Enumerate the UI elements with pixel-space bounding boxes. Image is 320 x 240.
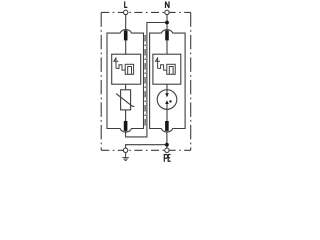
terminal clamp left top xyxy=(124,31,128,41)
wire earth branch xyxy=(126,145,167,148)
terminal clamp right bottom xyxy=(165,121,169,131)
junction node PE xyxy=(165,143,169,147)
wire varistor to bottom terminal xyxy=(125,110,127,121)
spark gap F1 (circle) xyxy=(157,90,177,110)
spark gap arrows xyxy=(165,93,169,97)
wire N drop xyxy=(166,15,168,31)
wire spark gap to bottom terminal xyxy=(166,109,168,121)
junction node N xyxy=(165,21,169,25)
module divider (dash-dot) xyxy=(144,35,146,127)
label PE (E) xyxy=(168,155,171,162)
module box left xyxy=(107,30,144,133)
disconnector box U2 (right) xyxy=(153,54,181,84)
label L xyxy=(125,1,128,7)
terminal clamp left bottom xyxy=(124,121,128,131)
terminal circle N xyxy=(165,10,169,14)
terminal clamp right top xyxy=(165,31,169,41)
terminal circle earth xyxy=(123,148,127,152)
earth symbol xyxy=(122,153,129,161)
label PE (P) xyxy=(164,155,167,162)
varistor RV1 xyxy=(121,90,131,110)
wire left disconnect to varistor xyxy=(125,84,127,90)
enclosure border bottom (dash-dot) xyxy=(101,149,191,151)
terminal circle PE xyxy=(165,148,169,152)
module box right xyxy=(150,30,186,133)
wire right module bottom to PE xyxy=(166,131,168,148)
disconnector box U1 (left) xyxy=(112,54,141,84)
wire L drop xyxy=(125,15,127,31)
enclosure border left (dash-dot) xyxy=(100,12,102,150)
wire right module internal top xyxy=(166,40,168,54)
enclosure border right (dash-dot) xyxy=(190,12,192,150)
enclosure border top (dash-dot) xyxy=(101,11,191,13)
terminal circle L xyxy=(124,10,128,14)
spark gap dot xyxy=(169,100,171,102)
wire right disconnect to spark gap xyxy=(166,84,168,90)
disconnector symbol (right) xyxy=(156,57,167,70)
wire left module internal top xyxy=(125,40,127,54)
disconnector symbol (left) xyxy=(114,57,125,70)
wire N branch to varistor bottom xyxy=(126,23,167,137)
label N xyxy=(166,1,170,8)
